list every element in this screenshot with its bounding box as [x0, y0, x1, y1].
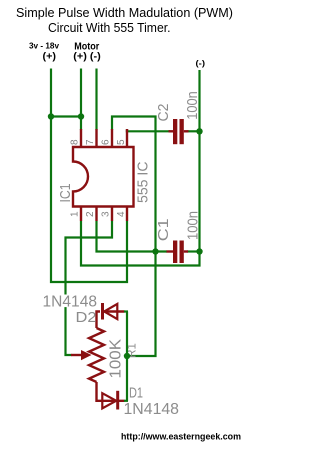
pin 2 stub	[95, 207, 97, 222]
wire 3v+ rail down left side and across to pin 4 riser	[51, 69, 127, 283]
wire (-) rail down right side, across bottom to pin 1	[81, 70, 200, 266]
wire diode junction vertical (D2 anode to D1 cathode)	[126, 312, 128, 401]
title text	[16, 5, 233, 35]
svg-text:1N4148: 1N4148	[124, 401, 180, 418]
pin 1 stub	[80, 207, 82, 222]
svg-text:5: 5	[116, 139, 127, 145]
diode D1	[102, 391, 128, 410]
pin 3 stub	[111, 207, 113, 222]
D2 value label 1N4148 (white backing)	[42, 295, 98, 308]
svg-text:C2: C2	[155, 104, 172, 122]
wire pin 2 to C1 left lead	[97, 221, 168, 252]
svg-text:D1: D1	[129, 386, 143, 402]
pin 4 stub	[126, 207, 128, 222]
capacitor C1	[167, 241, 189, 264]
svg-text:1: 1	[70, 211, 81, 217]
junction dot C2 at (-) rail	[196, 128, 202, 134]
wire pin 6 net: up, right, down to diode junction	[112, 117, 156, 357]
wire motor- terminal to pin 7	[95, 69, 97, 131]
node Motor terminal labels	[73, 41, 101, 62]
R1 wiper arrow	[71, 350, 92, 360]
pin 7 stub	[95, 129, 97, 147]
svg-text:555 IC: 555 IC	[135, 161, 152, 203]
junction dot at motor+	[78, 113, 84, 119]
diode D2	[97, 303, 129, 328]
svg-text:3: 3	[101, 211, 112, 217]
junction dot C1 at (-) rail	[196, 248, 202, 254]
svg-text:7: 7	[85, 139, 96, 145]
svg-text:1N4148: 1N4148	[43, 294, 98, 311]
wire branch 3v+ to motor+	[51, 115, 81, 117]
junction dot at 3v+ branch	[48, 113, 54, 119]
svg-text:100K: 100K	[107, 339, 124, 379]
svg-text:(-): (-)	[196, 58, 206, 68]
svg-text:IC1: IC1	[57, 184, 74, 203]
svg-text:2: 2	[85, 211, 96, 217]
wire pin 5 to C2 left lead	[126, 130, 170, 132]
svg-text:(+) (-): (+) (-)	[73, 52, 101, 63]
wire pin 3 to potentiometer wiper	[66, 221, 113, 355]
svg-text:6: 6	[101, 139, 112, 145]
junction dot at diode junction node	[124, 353, 130, 359]
svg-text:100n: 100n	[184, 211, 201, 240]
svg-text:100n: 100n	[184, 91, 201, 120]
svg-text:D2: D2	[76, 310, 97, 326]
junction dot pin6 net at C1 wire	[152, 248, 158, 254]
IC U1 555 timer body with notch	[73, 147, 134, 207]
capacitor C2	[169, 119, 189, 144]
svg-text:3v - 18v: 3v - 18v	[29, 42, 60, 51]
svg-text:C1: C1	[155, 218, 172, 241]
svg-text:Simple Pulse Width Madulation: Simple Pulse Width Madulation (PWM)	[16, 5, 233, 20]
svg-text:Circuit With 555 Timer.: Circuit With 555 Timer.	[48, 20, 171, 35]
wire motor+ terminal to pin 8	[80, 69, 82, 131]
svg-text:8: 8	[70, 139, 81, 145]
pin 6 stub	[111, 129, 113, 147]
pin 8 stub	[80, 129, 82, 147]
wire C2 right lead to (-) rail	[188, 130, 200, 132]
svg-text:4: 4	[116, 211, 127, 217]
wire C1 right lead to (-) rail	[187, 250, 200, 252]
node 3v-18v (+) supply terminal label	[29, 42, 60, 63]
resistor R1 potentiometer zigzag	[89, 328, 104, 382]
svg-text:http://www.easterngeek.com: http://www.easterngeek.com	[121, 432, 241, 442]
svg-text:(+): (+)	[43, 52, 57, 63]
pin 5 stub	[126, 129, 128, 147]
R1 bottom lead to D1	[97, 382, 103, 401]
